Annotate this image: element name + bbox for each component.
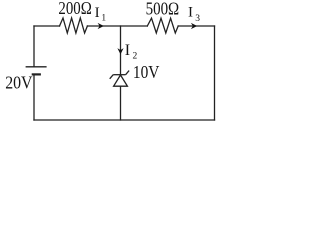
- svg-text:I: I: [95, 5, 100, 21]
- resistor R1 200ohm zigzag: [60, 18, 88, 33]
- wire left rail lower: [33, 74, 35, 120]
- svg-text:200Ω: 200Ω: [58, 0, 91, 18]
- battery V1 20V short plate: [32, 73, 41, 75]
- zener diode D1 right bend: [126, 71, 130, 75]
- svg-text:3: 3: [195, 14, 200, 24]
- wire top rail left segment: [34, 25, 60, 27]
- wire middle branch lower: [120, 86, 122, 120]
- zener diode D1 cathode bar: [113, 74, 125, 76]
- svg-text:20V: 20V: [5, 73, 33, 93]
- zener diode D1 left bend: [110, 75, 114, 79]
- svg-text:1: 1: [101, 13, 106, 23]
- wire top rail middle segment: [87, 25, 147, 27]
- svg-text:10V: 10V: [133, 62, 160, 82]
- current arrow I3 head: [191, 23, 197, 29]
- wire bottom rail: [34, 119, 215, 121]
- svg-text:I: I: [188, 5, 193, 21]
- current arrow I1 head: [98, 23, 104, 29]
- wire right rail: [214, 26, 216, 120]
- wire top rail right segment: [178, 25, 214, 27]
- wire middle branch upper: [120, 26, 122, 75]
- svg-text:2: 2: [133, 51, 138, 61]
- current arrow I2 head: [117, 48, 123, 54]
- svg-text:I: I: [125, 42, 130, 59]
- resistor R2 500ohm zigzag: [147, 18, 178, 33]
- svg-text:500Ω: 500Ω: [146, 0, 180, 18]
- wire left rail upper: [33, 26, 35, 67]
- battery V1 20V long plate: [26, 66, 47, 68]
- zener diode D1 triangle: [114, 75, 128, 86]
